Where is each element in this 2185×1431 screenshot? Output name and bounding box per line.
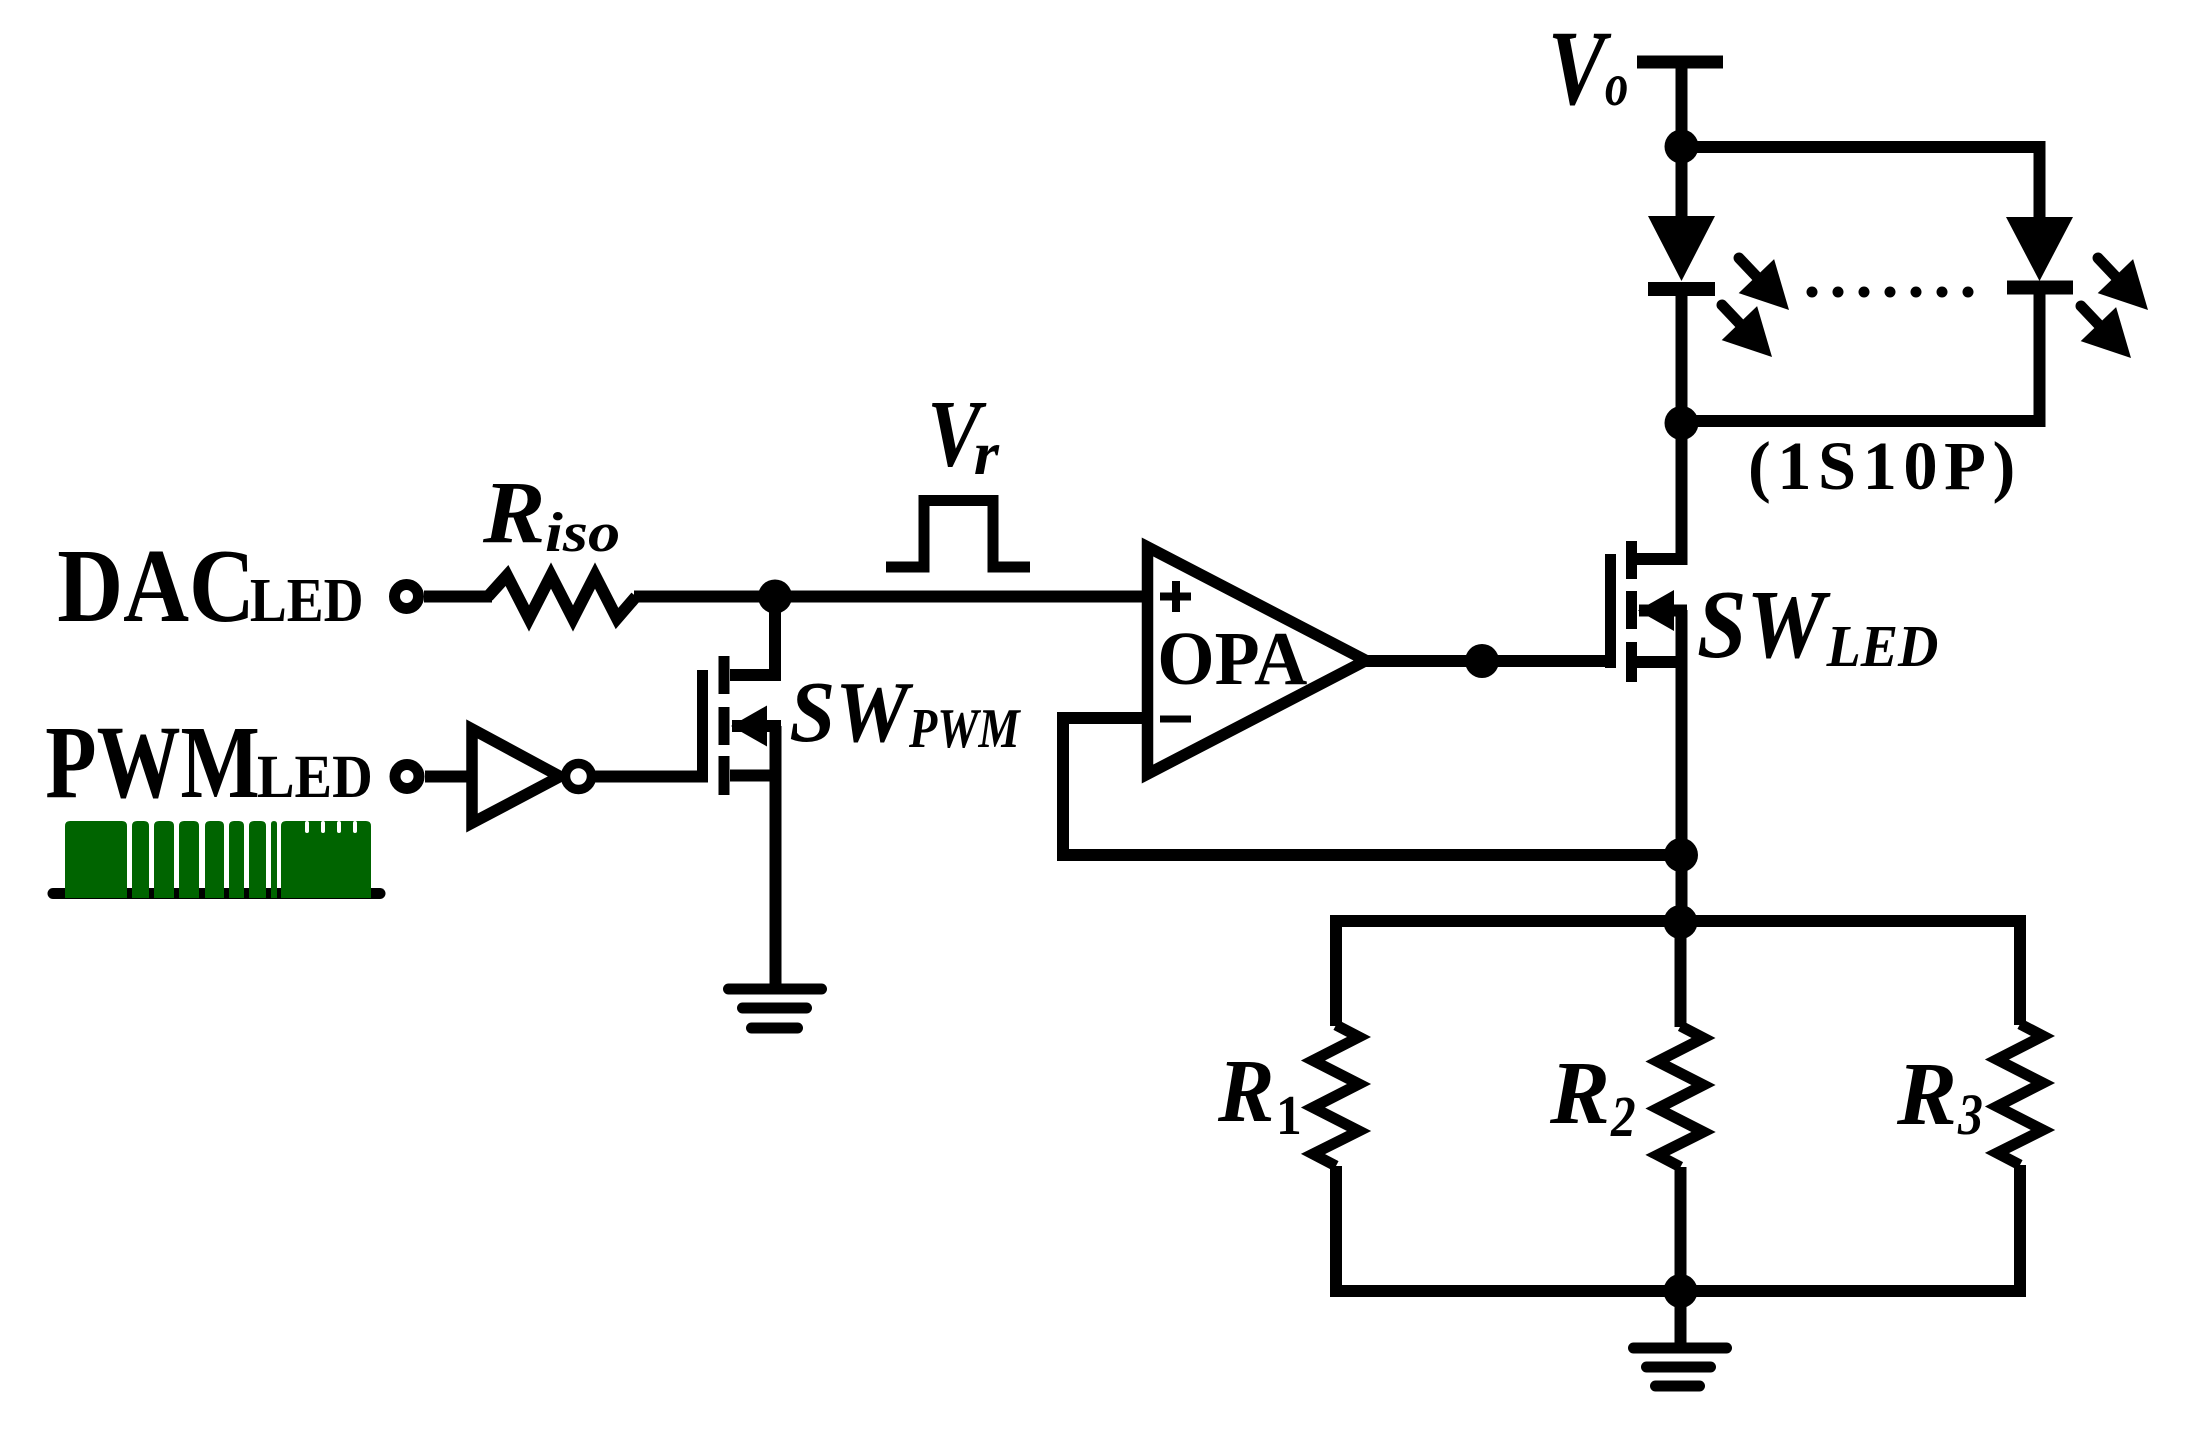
svg-text:SW: SW	[789, 665, 914, 760]
svg-text:LED: LED	[257, 743, 373, 811]
svg-text:OPA: OPA	[1157, 617, 1307, 701]
svg-text:R: R	[1896, 1045, 1957, 1144]
svg-text:DAC: DAC	[57, 528, 255, 644]
svg-text:r: r	[974, 419, 1001, 487]
svg-text:V: V	[1548, 9, 1612, 128]
svg-text:R: R	[1549, 1044, 1610, 1143]
svg-text:3: 3	[1957, 1083, 1983, 1147]
svg-text:SW: SW	[1697, 571, 1831, 679]
svg-text:PWM: PWM	[45, 706, 259, 820]
svg-text:2: 2	[1610, 1084, 1636, 1149]
svg-text:PWM: PWM	[908, 698, 1021, 760]
svg-text:o: o	[1605, 50, 1628, 119]
svg-text:LED: LED	[1826, 614, 1939, 679]
svg-text:R: R	[1217, 1041, 1274, 1141]
svg-text:1: 1	[1276, 1084, 1302, 1146]
svg-text:iso: iso	[545, 502, 620, 564]
svg-text:R: R	[482, 463, 545, 561]
svg-text:(1S10P): (1S10P)	[1748, 428, 2022, 504]
svg-text:LED: LED	[250, 565, 364, 635]
